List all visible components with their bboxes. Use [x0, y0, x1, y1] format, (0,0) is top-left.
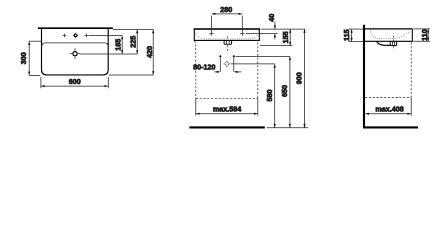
- right tap hole cross (plan view): [84, 34, 88, 38]
- dimension 115 (side): [351, 29, 353, 41]
- svg-text:650: 650: [280, 85, 289, 97]
- dimension 110 (side): [427, 29, 429, 41]
- dimension max.408 (side): [365, 113, 411, 115]
- svg-text:80-120: 80-120: [193, 62, 215, 71]
- left tap hole cross (plan view): [63, 34, 67, 38]
- right fixing hole (front view): [240, 33, 244, 35]
- drain centerline (side view, dashed): [392, 46, 394, 50]
- washbasin body (side view): [365, 29, 412, 41]
- dimension 300 (plan): [28, 41, 30, 75]
- extension lines max.584: [195, 98, 197, 115]
- svg-text:max.408: max.408: [375, 104, 403, 113]
- basin bowl rim line (plan view): [42, 43, 108, 46]
- floor line (side view): [363, 126, 418, 128]
- dimension 650 (front): [289, 56, 291, 127]
- extension lines 115 (side left): [348, 28, 363, 30]
- extension line plan top edge to 420 dim: [113, 29, 154, 31]
- tap hole (plan view): [73, 33, 78, 38]
- dimension 40 (front, outside arrows): [274, 22, 276, 40]
- svg-text:115: 115: [342, 29, 351, 41]
- extension lines 600 (plan bottom): [40, 77, 42, 88]
- supply drop line right: [233, 57, 235, 72]
- extension lines 280 (front top): [211, 16, 213, 36]
- dimension 155 (front): [289, 29, 291, 45]
- svg-text:110: 110: [420, 29, 429, 41]
- svg-text:280: 280: [220, 5, 232, 14]
- washbasin body (front view): [194, 29, 259, 40]
- floor extension line (front view): [267, 127, 308, 129]
- svg-text:225: 225: [129, 36, 138, 48]
- svg-text:900: 900: [295, 72, 304, 84]
- extension line tap holes to 165 dim: [89, 34, 123, 36]
- extension line drain to 225 dim: [80, 53, 137, 55]
- svg-text:420: 420: [145, 46, 154, 58]
- installation clearance dashed outline (front view): [194, 41, 257, 99]
- drain outlet box (front view): [224, 41, 232, 45]
- dimension 225 (plan): [136, 30, 138, 54]
- wall drain outlet symbol (front view): [224, 61, 231, 68]
- dimension 420 (plan): [152, 30, 154, 76]
- extension line front top edge to 900 dim: [261, 28, 306, 30]
- dimension max.584 (front): [196, 113, 258, 115]
- extension line fixing holes to 40 dim: [246, 33, 278, 35]
- dimension 580 (front): [274, 64, 276, 128]
- svg-text:300: 300: [19, 52, 28, 64]
- extension lines 300 (plan left): [29, 40, 41, 42]
- left water supply point (front view): [219, 55, 222, 58]
- extension line basin underside to 155 dim: [260, 45, 293, 47]
- drain hole (plan view): [70, 48, 81, 59]
- installation clearance dashed outline (side view): [365, 42, 411, 98]
- extension line max.408: [410, 98, 412, 116]
- floor line (front view): [189, 126, 264, 128]
- extension lines 110 (side right): [413, 28, 430, 30]
- dimension 280 (front): [212, 13, 243, 15]
- extension line drain outlet to 580 dim: [231, 63, 275, 65]
- svg-text:40: 40: [267, 14, 276, 22]
- dimension 165 (plan): [121, 36, 123, 54]
- washbasin outer outline (plan view): [42, 29, 109, 75]
- siphon cover (side view): [377, 42, 391, 46]
- left fixing hole (front view): [209, 33, 213, 35]
- drain outlet box (side view): [390, 41, 396, 45]
- svg-text:165: 165: [114, 39, 123, 51]
- supply drop line left: [219, 57, 221, 72]
- dimension 80-120 (front, outside arrows): [214, 71, 241, 73]
- svg-text:max.584: max.584: [213, 104, 241, 113]
- dimension 600 (plan): [41, 85, 108, 87]
- svg-text:600: 600: [69, 77, 81, 86]
- svg-text:580: 580: [265, 90, 274, 102]
- dimension 900 (front): [303, 29, 305, 128]
- right water supply point (front view): [233, 55, 236, 58]
- hidden bowl line (side view, dashed): [370, 30, 410, 38]
- wall line (plan view, top thick): [38, 27, 113, 29]
- wall (side view): [363, 25, 365, 129]
- hidden bowl line (front view, dashed): [196, 33, 258, 39]
- extension line plan bottom edge to 420 dim: [109, 74, 154, 76]
- extension line supply to 650 dim: [236, 55, 290, 57]
- svg-text:155: 155: [281, 31, 290, 43]
- drain centerline (front view, dashed): [227, 45, 229, 51]
